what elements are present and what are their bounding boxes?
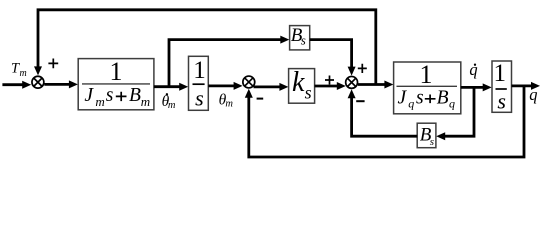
summing junction S3 <box>346 76 358 88</box>
svg-text:m: m <box>20 68 27 79</box>
node q_dot label <box>469 60 477 79</box>
svg-text:m: m <box>225 99 233 110</box>
svg-text:J: J <box>84 85 94 106</box>
block integrator 1/s (right) <box>492 60 512 113</box>
wire feedback bottom (tap down, across, up into S2) <box>245 86 524 157</box>
block ks <box>289 67 315 103</box>
wire S3 to block Jq (tap node) <box>358 81 394 89</box>
node Tm label <box>11 61 27 79</box>
wire output q (tap node) <box>512 82 541 90</box>
svg-text:1: 1 <box>110 57 123 86</box>
block integrator 1/s (middle) <box>189 56 209 110</box>
svg-text:q: q <box>529 85 537 104</box>
svg-text:s: s <box>430 136 434 148</box>
svg-text:J: J <box>398 88 408 109</box>
sign minus at S2 <box>257 98 264 100</box>
svg-text:s: s <box>416 88 424 109</box>
block 1/(Jm s + Bm) <box>78 57 154 110</box>
wire Jq to integrator 2 (tap node) <box>461 83 492 91</box>
svg-text:k: k <box>292 67 305 98</box>
wire block Jm to integrator 1 (branch node) <box>154 83 188 91</box>
svg-text:B: B <box>437 88 449 109</box>
svg-text:1: 1 <box>420 60 433 89</box>
svg-text:B: B <box>129 85 141 106</box>
summing junction S2 <box>243 76 255 88</box>
wire feedback top (tap up, across, down into S1) <box>34 10 376 85</box>
node theta_m_dot label <box>162 93 176 111</box>
block Bs bottom <box>417 123 436 148</box>
svg-text:m: m <box>141 94 150 109</box>
wire Bs bottom to S3 (up into junction, minus) <box>348 89 418 136</box>
node theta_m label <box>219 91 234 109</box>
svg-text:s: s <box>497 89 506 114</box>
sign plus at S1 <box>48 59 58 69</box>
svg-text:q: q <box>469 60 477 79</box>
svg-text:q: q <box>449 97 455 111</box>
svg-text:1: 1 <box>494 60 507 87</box>
block 1/(Jq s + Bq) <box>394 60 461 114</box>
sign plus before S3 <box>325 76 334 85</box>
svg-text:s: s <box>195 86 204 111</box>
svg-text:m: m <box>168 100 176 111</box>
svg-text:s: s <box>106 85 114 106</box>
wire S2 to block ks <box>254 83 289 91</box>
wire S1 to block Jm <box>44 80 78 88</box>
sign minus at S3 bottom <box>356 100 364 102</box>
svg-text:1: 1 <box>193 57 206 84</box>
svg-text:m: m <box>95 94 104 109</box>
svg-text:s: s <box>301 33 306 48</box>
sign plus at S3 top <box>358 64 367 73</box>
wire branch up to block Bs top <box>169 36 289 87</box>
wire Bs top to S3 (down into junction) <box>310 40 356 76</box>
block Bs top <box>290 25 310 50</box>
wire integrator1 to S2 <box>208 82 242 90</box>
svg-text:q: q <box>408 97 414 111</box>
wire input Tm <box>2 81 31 89</box>
wire ks to S3 <box>315 82 346 90</box>
wire tap down to block Bs bottom <box>436 87 474 140</box>
summing junction S1 <box>32 76 44 88</box>
svg-text:s: s <box>305 83 312 103</box>
